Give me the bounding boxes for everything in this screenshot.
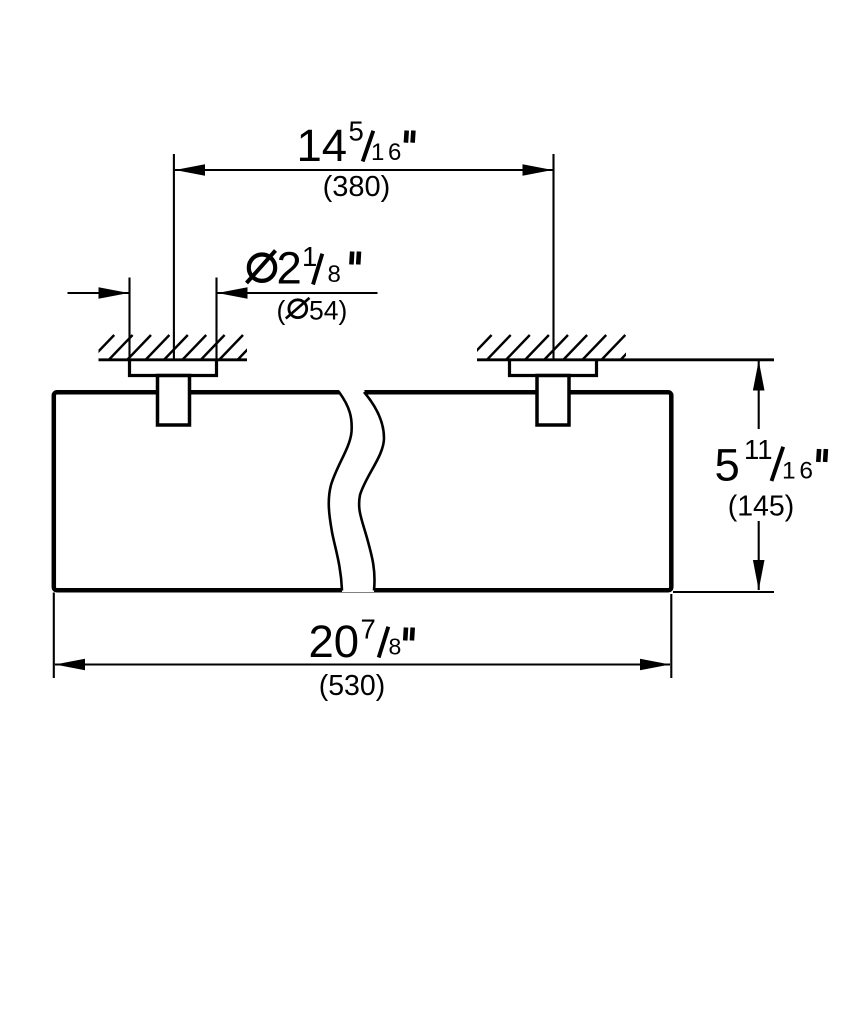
- wall right hatching: [468, 335, 645, 360]
- left mount stem: [158, 376, 190, 426]
- dim145 dimension line bottom segment: [758, 521, 760, 590]
- svg-text:7: 7: [361, 614, 376, 645]
- svg-text:5: 5: [715, 440, 740, 491]
- right mount flange: [510, 360, 597, 376]
- svg-text:8: 8: [389, 634, 402, 660]
- wall left surface line: [99, 358, 248, 361]
- svg-text:54): 54): [309, 296, 347, 326]
- right mount stem: [537, 376, 569, 426]
- dim380 dimension line: [175, 169, 553, 171]
- svg-text:16: 16: [782, 458, 817, 485]
- dim380 arrow left: [175, 164, 205, 176]
- svg-text:16: 16: [371, 139, 405, 166]
- svg-text:2: 2: [277, 243, 302, 294]
- dim145 bottom extension line: [673, 591, 774, 593]
- dim54 left arrow tail: [68, 292, 129, 294]
- dim530 dimension line: [55, 663, 670, 665]
- shelf break left curve: [329, 392, 352, 591]
- svg-text:11: 11: [744, 434, 773, 465]
- svg-text:(: (: [277, 296, 286, 326]
- dim530 arrow right: [640, 659, 670, 671]
- svg-text:1: 1: [302, 241, 317, 272]
- svg-text:14: 14: [297, 120, 348, 171]
- dim145 arrow down: [753, 560, 765, 590]
- dim145 label 5 11/16": [715, 434, 826, 491]
- svg-text:(380): (380): [323, 171, 391, 203]
- dim380 right extension line: [552, 154, 554, 360]
- dim54 right extension line: [215, 278, 217, 360]
- svg-text:(530): (530): [319, 670, 386, 702]
- dim54 label (Ø54): [277, 296, 348, 326]
- dim530 arrow left: [55, 659, 85, 671]
- dim54 left extension line: [128, 278, 130, 360]
- left mount flange: [130, 360, 217, 376]
- dim380 label 14 5/16": [297, 116, 414, 172]
- dim530 left extension line: [53, 593, 55, 679]
- shelf body: [54, 392, 672, 590]
- dim54 left arrow (pointing right): [99, 287, 129, 299]
- svg-text:(145): (145): [728, 491, 795, 523]
- wall right surface line + height dim top extension: [477, 358, 774, 361]
- shelf break right curve: [359, 392, 384, 591]
- svg-text:8: 8: [328, 261, 341, 288]
- svg-text:20: 20: [309, 616, 360, 667]
- dim380 arrow right: [523, 164, 553, 176]
- dim530 label 20 7/8": [309, 614, 413, 668]
- svg-text:5: 5: [349, 116, 364, 147]
- dim54 right arrow (pointing left): [218, 287, 248, 299]
- dim54 leader line: [218, 292, 378, 294]
- dim145 dimension line top segment: [758, 361, 760, 430]
- dim380 left extension line: [173, 154, 175, 360]
- shelf break white gap: [329, 390, 384, 592]
- wall left hatching: [90, 335, 261, 360]
- dim54 label Ø2 1/8": [247, 241, 360, 294]
- dim530 right extension line: [670, 594, 672, 678]
- dim145 arrow up: [753, 361, 765, 391]
